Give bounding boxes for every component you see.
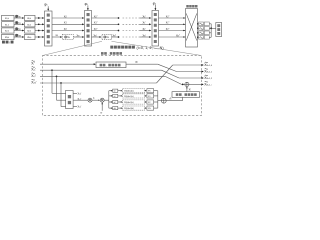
correlator row 3 input stub [109, 107, 112, 109]
S/P output row 1 [73, 99, 88, 101]
wire into weighted box row 0 [14, 17, 23, 19]
svg-text:x0: x0 [114, 91, 116, 93]
callout caption i-th data symbol [110, 46, 113, 49]
parallel/serial crossbar box U4 [186, 9, 198, 48]
wire XNp out of U2 [92, 36, 101, 38]
S/P output row 0 [73, 92, 77, 94]
channel title blobs [101, 52, 104, 55]
channel model dashed boundary [43, 56, 202, 116]
svg-text:Σf(k)hi,1(k): Σf(k)hi,1(k) [124, 96, 134, 98]
input register box x2 [2, 28, 15, 33]
multiplier M2 (noise adder) [100, 98, 104, 102]
tap junction row 1 [51, 69, 53, 71]
svg-text:X1": X1" [94, 21, 98, 25]
wire into weighted box row 1 [14, 23, 23, 25]
wire into weighted box row 2 [14, 30, 23, 32]
svg-text:F1: F1 [148, 96, 150, 98]
wire to serial-parallel converter row 0 [35, 17, 44, 19]
svg-text:/: / [9, 40, 10, 44]
svg-text:XN': XN' [94, 34, 98, 37]
correlator row 0 input stub [109, 90, 112, 92]
wire from U3 to P/S row 3 [159, 36, 186, 38]
sample box row 3 [113, 107, 118, 110]
wire into transmitter [211, 27, 216, 29]
svg-text:Σf(k)hi,2(k): Σf(k)hi,2(k) [124, 102, 134, 104]
tap junction row 2 [56, 76, 58, 78]
input register box x3 [2, 34, 15, 39]
sample box row 1 [113, 94, 118, 97]
wire correlator row 0 to summer [154, 90, 158, 92]
DAC filter chain row 3 [197, 37, 199, 39]
svg-text:FN: FN [148, 108, 150, 110]
input register box x0 [2, 15, 15, 20]
wire X2pp from U2 toward U3 [92, 30, 119, 32]
DAC filter chain row 1 [197, 28, 199, 30]
phase wire into U3 [154, 5, 156, 10]
svg-text:F2: F2 [148, 102, 150, 104]
wire X2p from U1 to U2 [52, 30, 83, 32]
callout diagonal left [43, 41, 103, 55]
svg-text:X2": X2" [94, 27, 98, 31]
wire X1pp from U2 toward U3 [92, 23, 119, 25]
svg-text:X2': X2' [64, 27, 68, 31]
wire to serial-parallel converter row 1 [35, 23, 44, 25]
svg-text:X1': X1' [143, 21, 147, 25]
matched filter dashed box row 0 [123, 89, 145, 93]
wire M1 to M2 [92, 99, 99, 101]
wire xN out of U1 [52, 36, 62, 38]
wire row3 [40, 82, 157, 84]
svg-text:X0": X0" [94, 14, 98, 18]
wire XN with tap toward U3 [112, 36, 119, 38]
transmitter block [216, 23, 222, 37]
channel output arrow row 1 [202, 71, 204, 73]
wire to serial-parallel converter row 2 [35, 30, 44, 32]
sample box row 0 [113, 89, 118, 92]
decision statistic box row 2 [147, 100, 154, 104]
svg-text:F0: F0 [148, 91, 150, 93]
svg-text:X1': X1' [64, 21, 68, 25]
svg-text:x2,k: x2,k [5, 30, 9, 33]
svg-text:x1: x1 [114, 96, 116, 98]
svg-text:XN': XN' [143, 34, 147, 37]
svg-text:xN: xN [114, 108, 116, 110]
wire correlator row 2 to summer [154, 101, 158, 103]
wire up into decision block [182, 97, 184, 100]
wire X0p from U1 to U2 [52, 17, 83, 19]
multiply label h0 [15, 15, 17, 17]
svg-text:x2: x2 [114, 102, 116, 104]
dashed weighting box row4 left [62, 34, 73, 39]
sample box row 2 [113, 100, 118, 103]
equalizer block B1 [96, 62, 126, 68]
multiply label h2 [15, 28, 17, 30]
channel output arrow row 3 [202, 83, 204, 85]
decision statistic box row 1 [147, 94, 154, 98]
dashed weighting box row4 right [102, 34, 112, 39]
svg-text:X0': X0' [64, 14, 68, 18]
serial-parallel box B2 [66, 91, 74, 109]
svg-text:X2': X2' [143, 27, 147, 31]
matched filter dashed box row 1 [123, 94, 145, 98]
phase wire into U2 [87, 5, 89, 9]
svg-text:Xi': Xi' [135, 60, 138, 64]
weighted data box row 1 [25, 22, 36, 27]
multiplier M1 [88, 98, 92, 102]
correlator bank feed vertical [108, 91, 110, 108]
svg-text:Σf(k)hi,N(k): Σf(k)hi,N(k) [124, 108, 134, 110]
crossover row1 to out-row2 [162, 70, 180, 78]
svg-text:xN,k: xN,k [5, 36, 9, 39]
wire XN into U2 [73, 36, 83, 38]
crossbar diagonal 1 [186, 14, 197, 41]
decision / reconstruction block B3 [172, 92, 200, 98]
out-row3 wire with adder [182, 83, 185, 85]
matched filter dashed box row 2 [123, 100, 145, 104]
noise input wire [101, 102, 103, 111]
crossbar label [186, 5, 189, 8]
correlator row 2 input stub [109, 101, 112, 103]
wire from U3 to P/S row 2 [159, 30, 186, 32]
wire into summer [158, 100, 162, 102]
FFT block U2 [85, 11, 92, 47]
S/P output row 2 [73, 106, 77, 108]
correlator row 1 input stub [109, 95, 112, 97]
wire from U3 to P/S row 0 [159, 17, 186, 19]
input register box x1 [2, 22, 15, 27]
svg-text:X0": X0" [166, 15, 170, 18]
crossover row2 to out-row3 [165, 76, 181, 84]
svg-text:Xi': Xi' [31, 62, 35, 66]
DAC filter chain row 0 [197, 23, 199, 25]
crossover row3 rising to out-row0 [157, 65, 173, 83]
tap junction row 3 [60, 82, 62, 84]
reconstruction feedback wire [186, 87, 188, 92]
svg-text:(i=0, 1, 2, …, N): (i=0, 1, 2, …, N) [137, 46, 164, 50]
output bus vertical [210, 24, 212, 38]
phase control wire into U1 [47, 6, 49, 10]
svg-text:x0,k: x0,k [27, 17, 31, 20]
wire row2 [40, 75, 165, 77]
svg-text:Σf(k)hi,0(k): Σf(k)hi,0(k) [124, 91, 134, 93]
svg-text:X2": X2" [166, 28, 170, 31]
svg-text:XN": XN" [113, 34, 117, 37]
summer merge vertical [157, 91, 159, 108]
multiply label h1 [15, 21, 17, 23]
svg-text:x2,k: x2,k [27, 30, 31, 33]
svg-text:X0': X0' [143, 14, 147, 18]
svg-text:xN,k: xN,k [27, 36, 31, 39]
reconstruction adder [185, 82, 189, 86]
wire X0pp from U2 toward U3 [92, 17, 119, 19]
wire X1p from U1 to U2 [52, 23, 83, 25]
IFFT block U3 [152, 11, 159, 47]
crossover from equalizer down to out-row1 [126, 63, 158, 65]
wire from U3 to P/S row 1 [159, 23, 186, 25]
serial/parallel label [2, 41, 5, 44]
summation node [161, 98, 166, 103]
wire correlator row 1 to summer [154, 95, 158, 97]
wire M2 to correlator bank [104, 99, 109, 101]
svg-text:x1,k: x1,k [27, 23, 31, 26]
wire row1 [40, 69, 162, 71]
weighted data box row 2 [25, 28, 36, 33]
wire correlator row 3 to summer [154, 107, 158, 109]
DAC filter chain row 2 [197, 32, 199, 34]
wire to serial-parallel converter row 3 [35, 36, 44, 38]
IFFT block U1 [45, 11, 53, 46]
weighted data box row 3 [25, 34, 36, 39]
svg-text:x0,k: x0,k [5, 17, 9, 20]
matched filter dashed box row 3 [123, 106, 145, 110]
wire row0 to equalizer [40, 63, 95, 65]
decision metric wire [166, 100, 182, 102]
channel output arrow row 0 [202, 64, 204, 66]
wire into weighted box row 3 [14, 36, 23, 38]
multiply label h3 [15, 34, 17, 36]
svg-text:x1,k: x1,k [5, 23, 9, 26]
svg-text:XN": XN" [176, 34, 180, 37]
weighted data box row 0 [25, 15, 36, 20]
svg-text:X1": X1" [166, 22, 170, 25]
callout diagonal right [112, 41, 202, 55]
decision statistic box row 3 [147, 106, 154, 110]
channel output arrow row 2 [202, 77, 204, 79]
crossbar diagonal 2 [186, 14, 197, 41]
decision statistic box row 0 [147, 89, 154, 93]
